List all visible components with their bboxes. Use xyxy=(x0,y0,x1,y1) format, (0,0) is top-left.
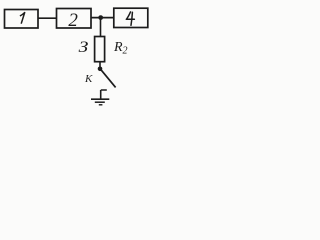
wire junction down to resistor xyxy=(100,18,102,37)
wire box1 to box2 xyxy=(38,17,56,19)
resistor R2 body xyxy=(95,37,105,62)
switch K blade xyxy=(101,69,116,87)
wire resistor to switch xyxy=(99,62,101,68)
switch fixed contact tick xyxy=(101,89,107,91)
switch K movable contact dot xyxy=(98,67,103,72)
node junction dot xyxy=(98,15,103,20)
svg-text:K: K xyxy=(84,73,93,85)
ground xyxy=(91,99,109,105)
block 2 xyxy=(57,9,92,32)
svg-text:2: 2 xyxy=(123,46,128,57)
svg-text:R: R xyxy=(113,40,123,55)
svg-text:З: З xyxy=(79,38,89,56)
wire switch to ground xyxy=(100,90,102,99)
block 4 xyxy=(114,8,148,27)
block 1 xyxy=(5,10,39,29)
label R2 xyxy=(113,40,128,57)
wire box2 to box4 xyxy=(91,17,114,19)
svg-text:2: 2 xyxy=(68,10,78,31)
